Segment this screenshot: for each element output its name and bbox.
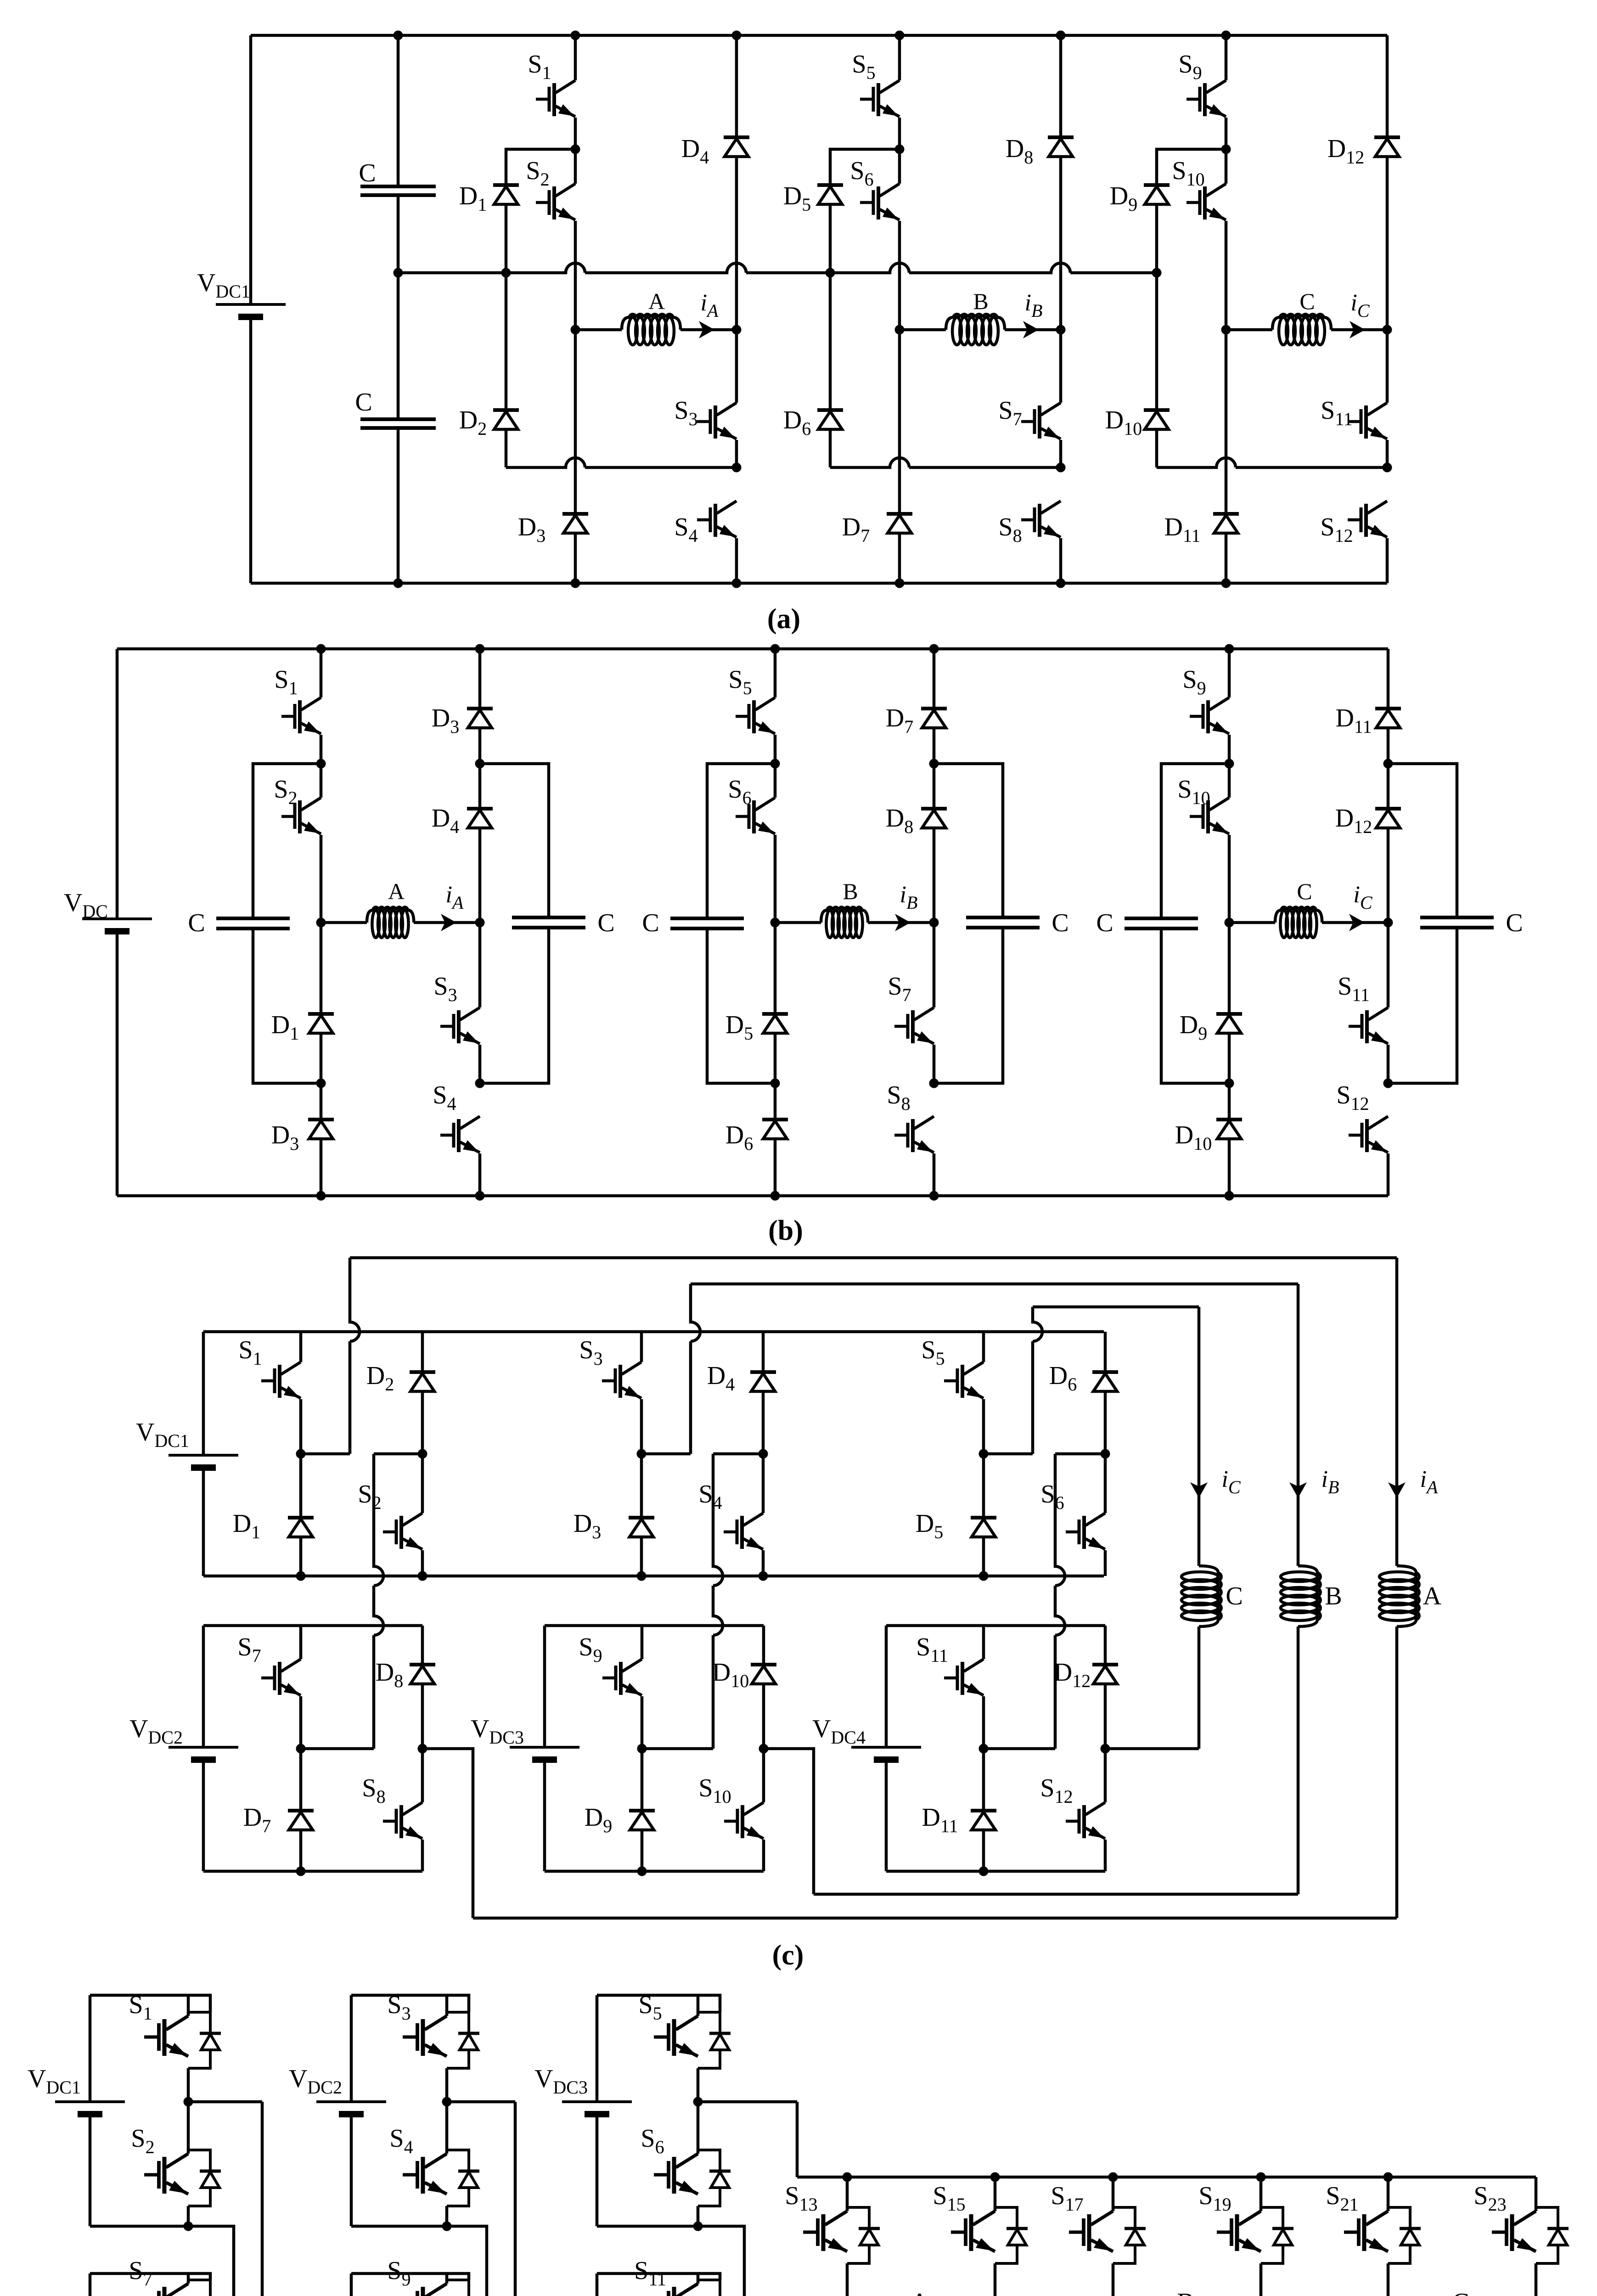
wire S1 midpoint output (188, 2100, 262, 2104)
wire D12 anode lead (1386, 35, 1389, 137)
wire S1 collector (c) (299, 1332, 303, 1362)
wire module V_DC4 top rail (886, 1624, 1105, 1627)
wire left capacitor branch phase A (253, 764, 321, 918)
svg-text:B: B (1325, 1582, 1342, 1610)
inductor winding A (622, 314, 680, 345)
wire riser phase A (350, 1258, 360, 1454)
wire bottom return line phase B (814, 1893, 1298, 1896)
wire S7 collector (c module) (299, 1626, 303, 1659)
transistor S7 (c) (261, 1659, 301, 1695)
svg-text:C: C (642, 909, 659, 937)
current arrow i_B (b) (895, 914, 911, 931)
junction top rail at S9 leg (1225, 644, 1234, 654)
diode D1 (308, 1014, 334, 1033)
junction mid rail (a) (501, 268, 511, 278)
current arrow i_C (c) (1190, 1482, 1208, 1498)
wire V_DC6 cell top rail (597, 2273, 720, 2280)
wire S12 emitter to module bottom rail (1104, 1840, 1107, 1871)
wire node to D5 (982, 1454, 985, 1518)
wire S9-S10 link (1228, 735, 1231, 798)
wire D12 to module node (1104, 1684, 1107, 1749)
wire V_DC1 negative lead (249, 317, 253, 583)
wire module4 output (1104, 1747, 1199, 1750)
wire clamp branch top D9 (1157, 149, 1226, 185)
node D2/S2 junction (418, 1449, 427, 1459)
wire V_DC positive lead (116, 649, 119, 919)
wire S21 collector (1387, 2177, 1390, 2211)
inductor winding C (1272, 314, 1331, 345)
transistor S5 (860, 80, 900, 117)
transistor S1 (c) (261, 1362, 301, 1398)
transistor S6 (654, 2154, 698, 2194)
wire D5 to mid rail (829, 204, 832, 273)
svg-text:C: C (1299, 288, 1315, 314)
wire S6 emitter to phase node (774, 835, 777, 923)
wire to D10 lower (1228, 1083, 1231, 1120)
wire phase A vertical lower (1395, 1626, 1399, 1918)
wire S1 collector (320, 649, 323, 698)
wire riser phase C (1033, 1307, 1042, 1454)
wire V_DC2 negative lead (350, 2114, 353, 2226)
wire module node to S10 (762, 1749, 765, 1802)
wire D9 to module bottom rail (641, 1830, 644, 1871)
wire S10 emitter to module bottom rail (762, 1840, 765, 1871)
wire phase C winding lead left (1229, 921, 1275, 924)
wire S11 collector stub (697, 2273, 700, 2284)
wire S5 collector (898, 35, 901, 80)
wire module V_DC3 bottom rail (545, 1870, 764, 1873)
wire V_DC1 positive lead (249, 35, 253, 304)
wire D3 to bottom rail (574, 533, 577, 583)
wire phase A winding lead right (680, 328, 737, 332)
transistor S6 antiparallel diode (698, 2150, 731, 2206)
wire S3 emitter to node (640, 1399, 643, 1454)
wire top line phase C (1033, 1306, 1199, 1309)
wire top rail (a) (251, 34, 1387, 37)
svg-text:C: C (188, 909, 205, 937)
junction bottom rail at left leg phase C (1225, 1191, 1234, 1201)
wire to D6 lower (774, 1083, 777, 1120)
transistor S9 (1190, 698, 1229, 734)
transistor S7 (894, 1007, 934, 1044)
wire S5 collector stub (697, 1995, 700, 2016)
diode D6 (c) (1092, 1372, 1118, 1391)
node phase C right (1383, 918, 1393, 928)
diode D8 (921, 809, 947, 828)
svg-text:(c): (c) (772, 1940, 804, 1971)
wire capacitor branch upper (397, 35, 400, 186)
wire D9 down (1228, 1033, 1231, 1083)
junction top rail at S5 leg (770, 644, 780, 654)
wire S13 emitter to phase node (846, 2263, 849, 2296)
diode D12 (1375, 809, 1401, 828)
wire S3 collector (c) (640, 1332, 643, 1362)
node right leg upper junction phase B (929, 759, 939, 769)
node right leg upper junction phase C (1383, 759, 1393, 769)
transistor S6 (860, 184, 900, 220)
transistor S2 (536, 184, 575, 220)
svg-text:C: C (359, 159, 376, 187)
wire V_DC2 negative lead (202, 1760, 205, 1871)
node S5/D5 junction (979, 1449, 989, 1459)
diode D11 upper right (1375, 709, 1401, 728)
wire V_DC3 cell bottom rail (597, 2225, 698, 2228)
wire S9 collector (1228, 649, 1231, 698)
junction top rail at D leg phase A (475, 644, 485, 654)
diode D11 (c) (971, 1811, 996, 1830)
node S3/S4 midpoint (442, 2097, 452, 2107)
diode D9 (1144, 185, 1170, 204)
wire node to D3 (640, 1454, 643, 1518)
node V_DC1 cell bottom (184, 2222, 193, 2231)
node S7/D7 module junction (296, 1744, 306, 1754)
diode D12 (c) (1092, 1665, 1118, 1684)
junction S2 bottom rail (418, 1571, 427, 1581)
wire D7-D8 link (933, 728, 936, 809)
wire left capacitor branch lower phase B (707, 929, 775, 1083)
wire S2 emitter to cell bottom (187, 2206, 190, 2226)
junction D5 bottom rail (979, 1571, 989, 1581)
wire right capacitor branch phase A (480, 764, 549, 917)
wire module node to S8 (421, 1749, 424, 1802)
node S3/S4 junction (475, 1079, 485, 1088)
diode D7 (887, 514, 912, 533)
wire right capacitor branch lower phase B (934, 929, 1003, 1083)
node D6/S6 junction (1101, 1449, 1110, 1459)
wire D5 down (774, 1033, 777, 1083)
wire S5 emitter to node (982, 1399, 985, 1454)
wire D2 down (505, 429, 508, 467)
transistor S11 (1348, 403, 1387, 439)
wire module node to S12 (1104, 1749, 1107, 1802)
transistor S7 (144, 2284, 188, 2296)
diode D2 (c) (410, 1372, 435, 1391)
diode D3 (562, 514, 588, 533)
wire S9 collector stub (445, 2273, 449, 2284)
transistor S11 (654, 2284, 698, 2296)
wire mid rail to D2 (505, 273, 508, 410)
svg-text:C: C (1297, 878, 1312, 904)
wire module V_DC2 bottom rail (203, 1870, 422, 1873)
wire phase B winding lead right (1005, 328, 1061, 332)
wire phase A winding lead right (414, 921, 480, 924)
wire S9-S10 link (1225, 118, 1228, 184)
wire D10 to S11/S12 node (1157, 458, 1387, 467)
wire S11 collector (c module) (982, 1626, 985, 1659)
wire cascade to module node (641, 1747, 713, 1750)
wire phase C vertical upper (1198, 1307, 1201, 1566)
current arrow i_B (c) (1289, 1482, 1307, 1498)
wire phase node to S3 (735, 330, 738, 403)
wire right capacitor branch phase C (1388, 764, 1457, 917)
battery V_DC1 (216, 304, 286, 317)
capacitor C right phase A (512, 917, 585, 928)
wire S4 emitter to bottom rail (735, 538, 738, 583)
wire S11 emitter to module node (982, 1696, 985, 1749)
wire D12 to phase node (1387, 828, 1390, 923)
transistor S5 antiparallel diode (698, 2012, 731, 2068)
wire mid rail to D10 (1155, 273, 1158, 410)
junction top bus S13 leg (843, 2172, 852, 2182)
wire S9 emitter to module node (641, 1696, 644, 1749)
junction top rail (a) (394, 31, 403, 40)
transistor S5 (736, 698, 775, 734)
wire phase B to D7 (898, 330, 901, 514)
node S9/S10 junction (1225, 759, 1234, 769)
node left leg lower junction phase A (316, 1079, 326, 1088)
wire left capacitor branch lower phase A (253, 929, 321, 1083)
node phase C left (1225, 918, 1234, 928)
inductor winding B (b) (821, 907, 868, 938)
wire D12 to phase C node (1386, 157, 1389, 330)
junction bottom rail (a) (732, 579, 742, 588)
wire top rail (b) (117, 647, 1388, 651)
wire phase B vertical lower (1297, 1626, 1300, 1894)
wire phase A to D3 (574, 330, 577, 514)
diode D5 (817, 185, 843, 204)
inductor winding A (c) (1379, 1566, 1419, 1626)
node right leg upper junction phase A (475, 759, 485, 769)
wire D10 to bottom rail (1228, 1139, 1231, 1196)
wire V_DC1 cell bottom rail (90, 2225, 188, 2228)
wire V_DC4 positive lead (89, 2273, 92, 2296)
wire phase node to D1 (320, 923, 323, 1014)
node phase B left (895, 325, 905, 335)
wire S11 emitter (1386, 440, 1389, 467)
diode D5 (c) (971, 1518, 996, 1537)
transistor S6 (c) (1066, 1513, 1105, 1549)
wire D8 lead (c module) (421, 1626, 424, 1665)
wire D11 lead (1387, 649, 1390, 709)
wire midpoint to S6 (697, 2102, 700, 2154)
wire right capacitor branch lower phase A (480, 929, 549, 1083)
junction mid rail (a) (826, 268, 835, 278)
wire V_DC5 cell top rail (351, 2273, 469, 2280)
wire midpoint to S4 (445, 2102, 449, 2154)
transistor S11 (c) (944, 1659, 984, 1695)
transistor S10 (1190, 798, 1229, 834)
wire left capacitor branch phase B (707, 764, 775, 918)
wire D7 to bottom rail (898, 533, 901, 583)
wire D6 down (829, 429, 832, 467)
svg-text:C: C (1506, 909, 1523, 937)
junction D9 module bottom rail (637, 1867, 647, 1876)
transistor S2 antiparallel diode (188, 2150, 221, 2206)
current arrow i_A (b) (441, 914, 456, 931)
wire phase C winding lead right (1331, 328, 1387, 332)
wire phase node to S3 (478, 923, 482, 1007)
wire module node to D9 (641, 1749, 644, 1811)
junction top bus S17 leg (1108, 2172, 1118, 2182)
wire V_DC2 positive lead (350, 1995, 353, 2102)
transistor S4 antiparallel diode (447, 2150, 479, 2206)
node phase B left (770, 918, 780, 928)
wire S3 midpoint output (447, 2100, 515, 2104)
transistor S9 (403, 2284, 447, 2296)
junction top bus S21 leg (1383, 2172, 1393, 2182)
svg-text:(b): (b) (768, 1215, 803, 1246)
wire S8 emitter to bottom rail (933, 1154, 936, 1196)
wire cascade drop phase C (1055, 1454, 1065, 1749)
transistor S15 antiparallel diode (995, 2207, 1028, 2263)
svg-text:C: C (597, 909, 614, 937)
transistor S12 (c) (1066, 1802, 1105, 1839)
capacitor C lower (360, 419, 436, 428)
node S3/S4 junction (732, 463, 742, 473)
node V_DC2 cell bottom (442, 2222, 452, 2231)
wire V_DC3 negative lead (543, 1760, 546, 1871)
wire V_DC2 cell bottom rail (351, 2225, 447, 2228)
svg-text:C: C (355, 388, 372, 416)
wire D4 to phase node (478, 828, 482, 923)
transistor S6 (736, 798, 775, 834)
diode D3 upper right (467, 709, 493, 728)
wire cascade jog phase A (374, 1452, 422, 1456)
wire S3 emitter to midpoint (445, 2068, 449, 2102)
wire S7 collector stub (187, 2273, 190, 2284)
transistor S3 (697, 403, 737, 439)
wire right capacitor branch lower phase C (1388, 929, 1457, 1083)
wire module V_DC4 bottom rail (886, 1870, 1105, 1873)
wire module V_DC2 top rail (203, 1624, 422, 1627)
wire phase node to S11 (1386, 330, 1389, 403)
wire bridge top bus (797, 2176, 1536, 2179)
wire V_DC3 positive lead (543, 1626, 546, 1747)
wire D2 lead (c) (421, 1332, 424, 1372)
wire phase B winding lead left (775, 921, 821, 924)
wire V_DC4 negative lead (885, 1760, 888, 1871)
wire S1-S2 link (574, 118, 577, 184)
svg-text:C: C (1096, 909, 1113, 937)
wire S19 emitter to phase node (1260, 2263, 1263, 2296)
diode D8 (1048, 137, 1074, 157)
junction bottom rail (a) (394, 579, 403, 588)
wire V_DC1 positive lead (89, 1995, 92, 2102)
wire module node to D11 (982, 1749, 985, 1811)
inductor winding C (c) (1181, 1566, 1221, 1626)
transistor S3 antiparallel diode (447, 2012, 479, 2068)
wire S5 midpoint output (698, 2100, 797, 2104)
node S5/S6 junction (895, 145, 905, 154)
wire D8 to phase B node (1059, 157, 1063, 330)
wire V_DC1 positive lead (c) (202, 1332, 205, 1455)
junction bottom rail at right leg phase A (475, 1191, 485, 1201)
wire S8 emitter to bottom rail (1059, 538, 1063, 583)
wire node to S4 (762, 1454, 765, 1513)
wire D10 down (1155, 429, 1158, 467)
wire D1 to mid rail (505, 204, 508, 273)
wire node to riser phase B (641, 1452, 691, 1456)
diode D5 (762, 1014, 788, 1033)
wire module2 output (422, 1749, 473, 1918)
junction top rail at D leg phase B (929, 644, 939, 654)
wire D6 to node (1104, 1391, 1107, 1454)
wire capacitor branch middle (397, 195, 400, 419)
wire V_DC3 negative lead (596, 2114, 599, 2226)
transistor S7 (1021, 403, 1061, 439)
junction top bus S19 leg (1256, 2172, 1266, 2182)
transistor S5 (c) (944, 1362, 984, 1398)
wire bottom rail (b) (117, 1194, 1388, 1198)
svg-text:B: B (1177, 2288, 1194, 2296)
current arrow i_A (c) (1388, 1482, 1406, 1498)
wire D4 to node (762, 1391, 765, 1454)
wire top line phase B (691, 1283, 1298, 1286)
svg-text:B: B (843, 878, 858, 904)
wire phase A vertical upper (1395, 1258, 1399, 1566)
svg-text:A: A (648, 288, 665, 314)
wire capacitor branch lower (397, 428, 400, 583)
transistor S4 (c) (724, 1513, 763, 1549)
transistor S1 antiparallel diode (188, 2012, 221, 2068)
junction capacitor midpoint (394, 268, 403, 278)
wire S6 emitter to phase B node (898, 221, 901, 330)
transistor S1 (281, 698, 321, 734)
wire S15 emitter to phase node (994, 2263, 997, 2296)
wire S10 emitter to phase node (1228, 835, 1231, 923)
wire D1 down (320, 1033, 323, 1083)
wire S12 emitter to bottom rail (1386, 538, 1389, 583)
wire S1 emitter to node (299, 1399, 303, 1454)
capacitor C right phase B (966, 917, 1040, 928)
wire D2 to S3/S4 node (506, 458, 737, 467)
diode D10 lower (1216, 1120, 1242, 1139)
wire D8 anode lead (1059, 35, 1063, 137)
node phase B right (929, 918, 939, 928)
wire V_DC3 cell top rail (597, 1995, 720, 2012)
wire S4 emitter to bottom rail (762, 1550, 765, 1576)
node phase A right (732, 325, 742, 335)
wire D8 to phase node (933, 828, 936, 923)
capacitor C left phase C (1125, 918, 1198, 929)
current arrow i_B (1023, 321, 1039, 338)
wire D6 to bottom rail (774, 1139, 777, 1196)
transistor S8 (c) (383, 1802, 422, 1839)
svg-text:A: A (911, 2288, 929, 2296)
wire D4 anode lead (735, 35, 738, 137)
wire D6 lead (c) (1104, 1332, 1107, 1372)
wire midpoint to S2 (187, 2102, 190, 2154)
junction top bus S15 leg (990, 2172, 1000, 2182)
wire node to D1 (299, 1454, 303, 1518)
diode D1 (493, 185, 519, 204)
node D10/S10 module junction (759, 1744, 769, 1754)
wire bottom return line phase A (473, 1917, 1397, 1920)
diode D1 (c) (288, 1518, 314, 1537)
wire S5 emitter to midpoint (697, 2068, 700, 2102)
junction mid rail (a) (1152, 268, 1162, 278)
wire V_DC2 cell top rail (351, 1995, 469, 2012)
wire cascade jog phase C (1055, 1452, 1105, 1456)
wire S5 collector (774, 649, 777, 698)
wire D11 to bottom rail (1225, 533, 1228, 583)
wire right capacitor branch phase B (934, 764, 1003, 917)
transistor S4 (697, 501, 737, 537)
wire module3 output (762, 1749, 814, 1894)
wire S7 emitter to module node (299, 1696, 303, 1749)
diode D9 (c) (629, 1811, 655, 1830)
wire V_DC2 positive lead (202, 1626, 205, 1747)
diode D3 (c) (629, 1518, 654, 1537)
node S7/S8 junction (1056, 463, 1066, 473)
wire S4 emitter to cell bottom (445, 2206, 449, 2226)
diode D7 (c) (288, 1811, 314, 1830)
wire phase node to S11 (1387, 923, 1390, 1007)
wire module V_DC3 top rail (545, 1624, 764, 1627)
wire D7 lead (933, 649, 936, 709)
diode D11 (1213, 514, 1239, 533)
wire midpoint feed to bridge (796, 2102, 799, 2177)
